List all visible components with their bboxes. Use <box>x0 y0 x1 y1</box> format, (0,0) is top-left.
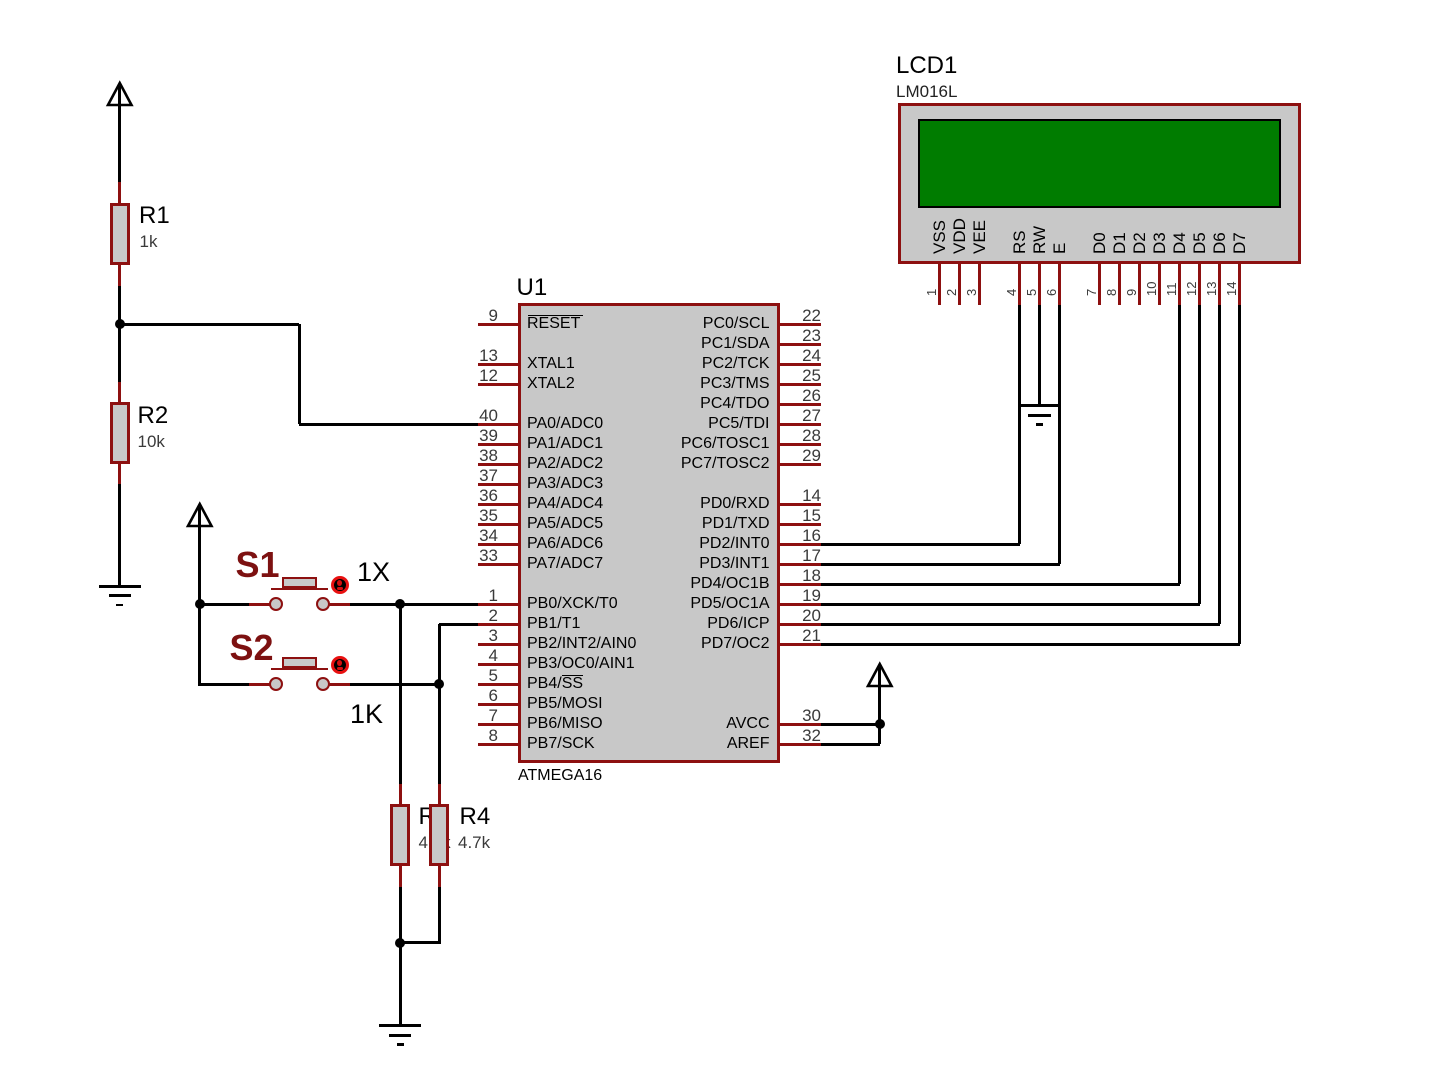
R1 label <box>139 204 170 228</box>
S2 actuator button <box>331 656 349 674</box>
pin PA5/ADC5 label <box>527 516 603 532</box>
pin 14 stub (PD0/RXD) <box>780 503 821 506</box>
LCD pin 4 name RS <box>1011 230 1028 254</box>
wire PB1 corner down to S2 junction <box>438 624 441 684</box>
pin 13 stub (XTAL1) <box>478 363 519 366</box>
pin 8 stub (PB7/SCK) <box>478 743 519 746</box>
pin 13 number <box>462 347 498 364</box>
pin PC0/SCL label <box>640 316 770 332</box>
ground at LCD RW <box>1020 404 1060 407</box>
ground under R3/R4 <box>379 1024 421 1027</box>
node junction R1/R2/PA0 <box>115 319 125 329</box>
LCD pin 12 stub <box>1198 264 1201 305</box>
R3 top pin stub <box>399 784 402 805</box>
S2 right stub <box>329 683 350 686</box>
pin 5 stub (PB4/SS) <box>478 683 519 686</box>
power symbol at switches <box>185 501 215 529</box>
LCD pin 14 name D7 <box>1231 232 1248 254</box>
wire LCD E down <box>1058 305 1061 564</box>
switch S1 cap <box>282 577 317 588</box>
pin 19 number <box>785 587 821 604</box>
pin 25 stub (PC3/TMS) <box>780 383 821 386</box>
pin PC1/SDA label <box>640 336 770 352</box>
pin PB1/T1 label <box>527 616 580 632</box>
resistor R2 <box>110 402 130 464</box>
switch S1 right contact <box>316 597 330 611</box>
pin PD6/ICP label <box>640 616 770 632</box>
pin 9 number <box>462 307 498 324</box>
LCD pin 14 number <box>1225 281 1238 295</box>
pin 32 number <box>785 727 821 744</box>
LCD pin 13 name D6 <box>1211 232 1228 254</box>
wire S2 row left segment <box>198 683 249 686</box>
R1 bottom pin stub <box>118 264 121 286</box>
LCD pin 10 number <box>1145 281 1158 295</box>
wire LCD RW down to ground <box>1038 305 1041 404</box>
wire node to ground <box>399 943 402 1025</box>
LCD pin 2 stub <box>958 264 961 305</box>
pin 22 number <box>785 307 821 324</box>
LCD green screen <box>918 119 1281 208</box>
pin 6 number <box>462 687 498 704</box>
LCD pin 10 name D3 <box>1151 232 1168 254</box>
pin 38 stub (PA2/ADC2) <box>478 463 519 466</box>
wire S2 junction down to R4 <box>438 684 441 784</box>
pin 7 number <box>462 707 498 724</box>
wire AREF up to AVCC node <box>878 724 881 744</box>
pin PA0/ADC0 label <box>527 416 603 432</box>
pin 17 stub (PD3/INT1) <box>780 563 821 566</box>
pin 1 stub (PB0/XCK/T0) <box>478 603 519 606</box>
pin 2 number <box>462 607 498 624</box>
resistor R3 <box>390 804 410 866</box>
wire R4 down <box>438 887 441 943</box>
wire S1 to PB0 <box>350 603 478 606</box>
wire junction down to R3 <box>399 604 402 784</box>
switch S2 cap <box>282 657 317 668</box>
pin PC2/TCK label <box>640 356 770 372</box>
pin XTAL1 label <box>527 356 575 372</box>
wire R2 to ground <box>118 484 121 585</box>
pin 2 stub (PB1/T1) <box>478 623 519 626</box>
pin 39 stub (PA1/ADC1) <box>478 443 519 446</box>
pin 23 stub (PC1/SDA) <box>780 343 821 346</box>
wire PD5 to LCD D5 <box>821 603 1200 606</box>
pin 36 number <box>462 487 498 504</box>
wire LCD D6 down <box>1218 305 1221 624</box>
R2 label <box>138 404 169 428</box>
pin 37 stub (PA3/ADC3) <box>478 483 519 486</box>
resistor R1 <box>110 203 130 265</box>
U1 label <box>517 276 548 300</box>
pin AVCC label <box>640 716 770 732</box>
R2 bottom pin stub <box>118 462 121 484</box>
pin 34 stub (PA6/ADC6) <box>478 543 519 546</box>
S1 label <box>236 547 280 583</box>
wire R1 to R2 <box>118 286 121 382</box>
pin 27 number <box>785 407 821 424</box>
pin 33 number <box>462 547 498 564</box>
pin PB3/OC0/AIN1 label <box>527 656 635 672</box>
wire R3 down to ground node <box>399 887 402 943</box>
LCD pin 10 stub <box>1158 264 1161 305</box>
pin 39 number <box>462 427 498 444</box>
LCD pin 7 number <box>1085 288 1098 295</box>
LCD pin 9 number <box>1125 288 1138 295</box>
pin PA6/ADC6 label <box>527 536 603 552</box>
pin 1 number <box>462 587 498 604</box>
LCD pin 11 stub <box>1178 264 1181 305</box>
pin 23 number <box>785 327 821 344</box>
pin 14 number <box>785 487 821 504</box>
pin PD3/INT1 label <box>640 556 770 572</box>
wire PD7 to LCD D7 <box>821 643 1240 646</box>
LCD pin 6 name E <box>1051 242 1068 253</box>
S1 right stub <box>329 603 350 606</box>
LCD pin 4 number <box>1005 288 1018 295</box>
pin PC4/TDO label <box>640 396 770 412</box>
wire LCD D4 down <box>1178 305 1181 584</box>
R2 top pin stub <box>118 382 121 404</box>
pin PD4/OC1B label <box>640 576 770 592</box>
pin 36 stub (PA4/ADC4) <box>478 503 519 506</box>
LCD pin 6 stub <box>1058 264 1061 305</box>
pin 4 stub (PB3/OC0/AIN1) <box>478 663 519 666</box>
LCD pin 9 stub <box>1138 264 1141 305</box>
LM016L label <box>896 83 957 100</box>
S2 label <box>230 630 274 666</box>
pin 40 stub (PA0/ADC0) <box>478 423 519 426</box>
pin 35 number <box>462 507 498 524</box>
pin 28 number <box>785 427 821 444</box>
pin 4 number <box>462 647 498 664</box>
pin 27 stub (PC5/TDI) <box>780 423 821 426</box>
pin 32 stub (AREF) <box>780 743 821 746</box>
R3 bottom pin stub <box>399 865 402 887</box>
pin PA2/ADC2 label <box>527 456 603 472</box>
LCD pin 3 name VEE <box>971 219 988 253</box>
pin PA1/ADC1 label <box>527 436 603 452</box>
pin 3 number <box>462 627 498 644</box>
switch S2 right contact <box>316 677 330 691</box>
pin 25 number <box>785 367 821 384</box>
LCD pin 14 stub <box>1238 264 1241 305</box>
pin 18 stub (PD4/OC1B) <box>780 583 821 586</box>
pin PA4/ADC4 label <box>527 496 603 512</box>
pin 38 number <box>462 447 498 464</box>
pin RESET label <box>527 316 580 332</box>
pin PB4/SS label <box>527 676 583 692</box>
LCD pin 8 stub <box>1118 264 1121 305</box>
LCD pin 3 number <box>965 288 978 295</box>
pin PB2/INT2/AIN0 label <box>527 636 636 652</box>
LCD pin 13 number <box>1205 281 1218 295</box>
pin 12 stub (XTAL2) <box>478 383 519 386</box>
pin PD7/OC2 label <box>640 636 770 652</box>
pin PD1/TXD label <box>640 516 770 532</box>
pin 24 number <box>785 347 821 364</box>
pin 24 stub (PC2/TCK) <box>780 363 821 366</box>
wire horizontal into PA0 pin <box>299 423 478 426</box>
ground under R2 <box>99 585 141 588</box>
wire S2 to junction right <box>350 683 441 686</box>
LCD pin 12 name D5 <box>1191 232 1208 254</box>
pin 34 number <box>462 527 498 544</box>
SS overline <box>562 675 584 677</box>
pin 20 stub (PD6/ICP) <box>780 623 821 626</box>
pin PB5/MOSI label <box>527 696 603 712</box>
pin 30 stub (AVCC) <box>780 723 821 726</box>
pin 29 stub (PC7/TOSC2) <box>780 463 821 466</box>
LCD pin 7 name D0 <box>1091 232 1108 254</box>
1K label <box>350 701 383 728</box>
pin 9 stub (RESET) <box>478 323 519 326</box>
switch S2 plunger bar <box>271 668 328 671</box>
op-amp U1 body (ATMEGA16 IC) <box>518 303 780 763</box>
LCD1 label <box>896 54 957 78</box>
pin 17 number <box>785 547 821 564</box>
LCD pin 1 name VSS <box>931 219 948 253</box>
pin 21 stub (PD7/OC2) <box>780 643 821 646</box>
pin 8 number <box>462 727 498 744</box>
node junction S1/PB0/R3 <box>395 599 405 609</box>
R3 label (occluded) <box>419 805 450 829</box>
pin PB0/XCK/T0 label <box>527 596 618 612</box>
pin PA7/ADC7 label <box>527 556 603 572</box>
wire vertical segment to PA0 <box>298 324 301 424</box>
pin 26 stub (PC4/TDO) <box>780 403 821 406</box>
R1 value 1k <box>140 233 158 250</box>
pin 18 number <box>785 567 821 584</box>
node junction S2/PB1/R4 <box>434 679 444 689</box>
S1 actuator button <box>331 576 349 594</box>
R4 top pin stub <box>438 784 441 805</box>
wire AVCC arrow down <box>878 667 881 724</box>
LCD pin 8 number <box>1105 288 1118 295</box>
R1 top pin stub <box>118 182 121 204</box>
pin 16 number <box>785 527 821 544</box>
wire AREF horizontal <box>821 743 880 746</box>
wire AVCC horizontal <box>821 723 880 726</box>
wire R4 to ground node <box>400 941 441 944</box>
pin 15 stub (PD1/TXD) <box>780 523 821 526</box>
wire LCD D5 down <box>1198 305 1201 604</box>
LCD pin 3 stub <box>978 264 981 305</box>
LCD1 body <box>898 103 1301 264</box>
pin 3 stub (PB2/INT2/AIN0) <box>478 643 519 646</box>
pin XTAL2 label <box>527 376 575 392</box>
node junction AVCC/AREF <box>875 719 885 729</box>
pin PB6/MISO label <box>527 716 603 732</box>
wire PD2 to LCD RS <box>821 543 1020 546</box>
pin 26 number <box>785 387 821 404</box>
R4 label <box>460 805 491 829</box>
resistor R4 <box>429 804 449 866</box>
pin PC6/TOSC1 label <box>640 436 770 452</box>
LCD pin 1 stub <box>938 264 941 305</box>
LCD pin 2 name VDD <box>951 218 968 254</box>
pin PD2/INT0 label <box>640 536 770 552</box>
pin 28 stub (PC6/TOSC1) <box>780 443 821 446</box>
LCD pin 7 stub <box>1098 264 1101 305</box>
wire PD3 to LCD E <box>821 563 1060 566</box>
R3 value 4.7k (occluded) <box>419 834 451 851</box>
R2 value 10k <box>138 433 165 450</box>
LCD pin 2 number <box>945 288 958 295</box>
pin 29 number <box>785 447 821 464</box>
pin 19 stub (PD5/OC1A) <box>780 603 821 606</box>
S2 left stub <box>249 683 270 686</box>
RESET overline <box>528 315 583 317</box>
R4 bottom pin stub <box>438 865 441 887</box>
LCD pin 5 name RW <box>1031 225 1048 253</box>
pin PA3/ADC3 label <box>527 476 603 492</box>
LCD pin 9 name D2 <box>1131 232 1148 254</box>
switch S1 left contact <box>269 597 283 611</box>
LCD pin 11 name D4 <box>1171 232 1188 254</box>
LCD pin 5 number <box>1025 288 1038 295</box>
LCD pin 4 stub <box>1018 264 1021 305</box>
1X label <box>357 559 390 586</box>
pin 12 number <box>462 367 498 384</box>
ATMEGA16 label <box>518 768 602 784</box>
pin 37 number <box>462 467 498 484</box>
LCD pin 8 name D1 <box>1111 232 1128 254</box>
pin 21 number <box>785 627 821 644</box>
wire PD6 to LCD D6 <box>821 623 1220 626</box>
R4 value 4.7k <box>458 834 490 851</box>
pin 22 stub (PC0/SCL) <box>780 323 821 326</box>
wire from VCC arrow down to R1 <box>118 86 121 182</box>
LCD pin 6 number <box>1045 288 1058 295</box>
switch S2 left contact <box>269 677 283 691</box>
LCD pin 1 number <box>925 288 938 295</box>
pin 5 number <box>462 667 498 684</box>
wire junction to right <box>120 323 300 326</box>
power symbol VCC top-left <box>105 80 135 108</box>
LCD pin 11 number <box>1165 282 1178 296</box>
pin PC3/TMS label <box>640 376 770 392</box>
wire arrow down to S1 row <box>198 507 201 604</box>
wire down to S2 row <box>198 604 201 686</box>
pin 40 number <box>462 407 498 424</box>
pin PD0/RXD label <box>640 496 770 512</box>
pin PC5/TDI label <box>640 416 770 432</box>
node junction at S1 left <box>195 599 205 609</box>
switch S1 plunger bar <box>271 588 328 591</box>
wire PD4 to LCD D4 <box>821 583 1180 586</box>
wire PB1 horizontal <box>439 623 478 626</box>
pin 35 stub (PA5/ADC5) <box>478 523 519 526</box>
LCD pin 5 stub <box>1038 264 1041 305</box>
pin 33 stub (PA7/ADC7) <box>478 563 519 566</box>
pin PB7/SCK label <box>527 736 595 752</box>
pin 16 stub (PD2/INT0) <box>780 543 821 546</box>
pin 6 stub (PB5/MOSI) <box>478 703 519 706</box>
pin 15 number <box>785 507 821 524</box>
pin 20 number <box>785 607 821 624</box>
LCD pin 12 number <box>1185 281 1198 295</box>
pin 30 number <box>785 707 821 724</box>
wire LCD RS down <box>1018 305 1021 544</box>
node junction R3/R4/ground <box>395 938 405 948</box>
power symbol at AVCC <box>865 661 895 689</box>
pin 7 stub (PB6/MISO) <box>478 723 519 726</box>
pin PC7/TOSC2 label <box>640 456 770 472</box>
LCD pin 13 stub <box>1218 264 1221 305</box>
S1 left stub <box>249 603 270 606</box>
wire LCD D7 down <box>1238 305 1241 644</box>
pin PD5/OC1A label <box>640 596 770 612</box>
pin AREF label <box>640 736 770 752</box>
wire S1 row left segment <box>200 603 250 606</box>
